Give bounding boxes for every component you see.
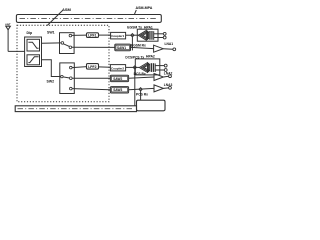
svg-text:SW1: SW1 (47, 31, 55, 35)
svg-text:SAW3: SAW3 (113, 88, 122, 92)
svg-text:EGSM Rx: EGSM Rx (131, 43, 146, 47)
svg-text:Dip: Dip (27, 31, 33, 35)
svg-text:SAW2: SAW2 (113, 77, 122, 81)
svg-text:LPF1: LPF1 (88, 34, 96, 38)
svg-text:ASM: ASM (62, 7, 72, 12)
svg-text:DCS Rx: DCS Rx (134, 72, 146, 76)
svg-text:SAW1: SAW1 (117, 46, 126, 50)
svg-text:HPA1: HPA1 (144, 26, 153, 30)
svg-text:LNA1: LNA1 (165, 42, 174, 46)
svg-text:SW2: SW2 (47, 79, 55, 83)
svg-text:HPA2: HPA2 (146, 55, 155, 59)
svg-text:LNA3: LNA3 (164, 83, 173, 87)
svg-text:LPF2: LPF2 (88, 65, 96, 69)
svg-text:LNA2: LNA2 (164, 72, 173, 76)
svg-text:Coupler2: Coupler2 (111, 66, 124, 70)
svg-text:ASM-MPA: ASM-MPA (136, 6, 153, 10)
svg-text:ANT: ANT (5, 23, 11, 27)
svg-text:EGSM Tx: EGSM Tx (127, 25, 142, 29)
svg-text:DCS/PCS Tx: DCS/PCS Tx (125, 56, 144, 60)
svg-text:PCS Rx: PCS Rx (136, 92, 148, 96)
svg-text:Coupler1: Coupler1 (111, 34, 124, 38)
